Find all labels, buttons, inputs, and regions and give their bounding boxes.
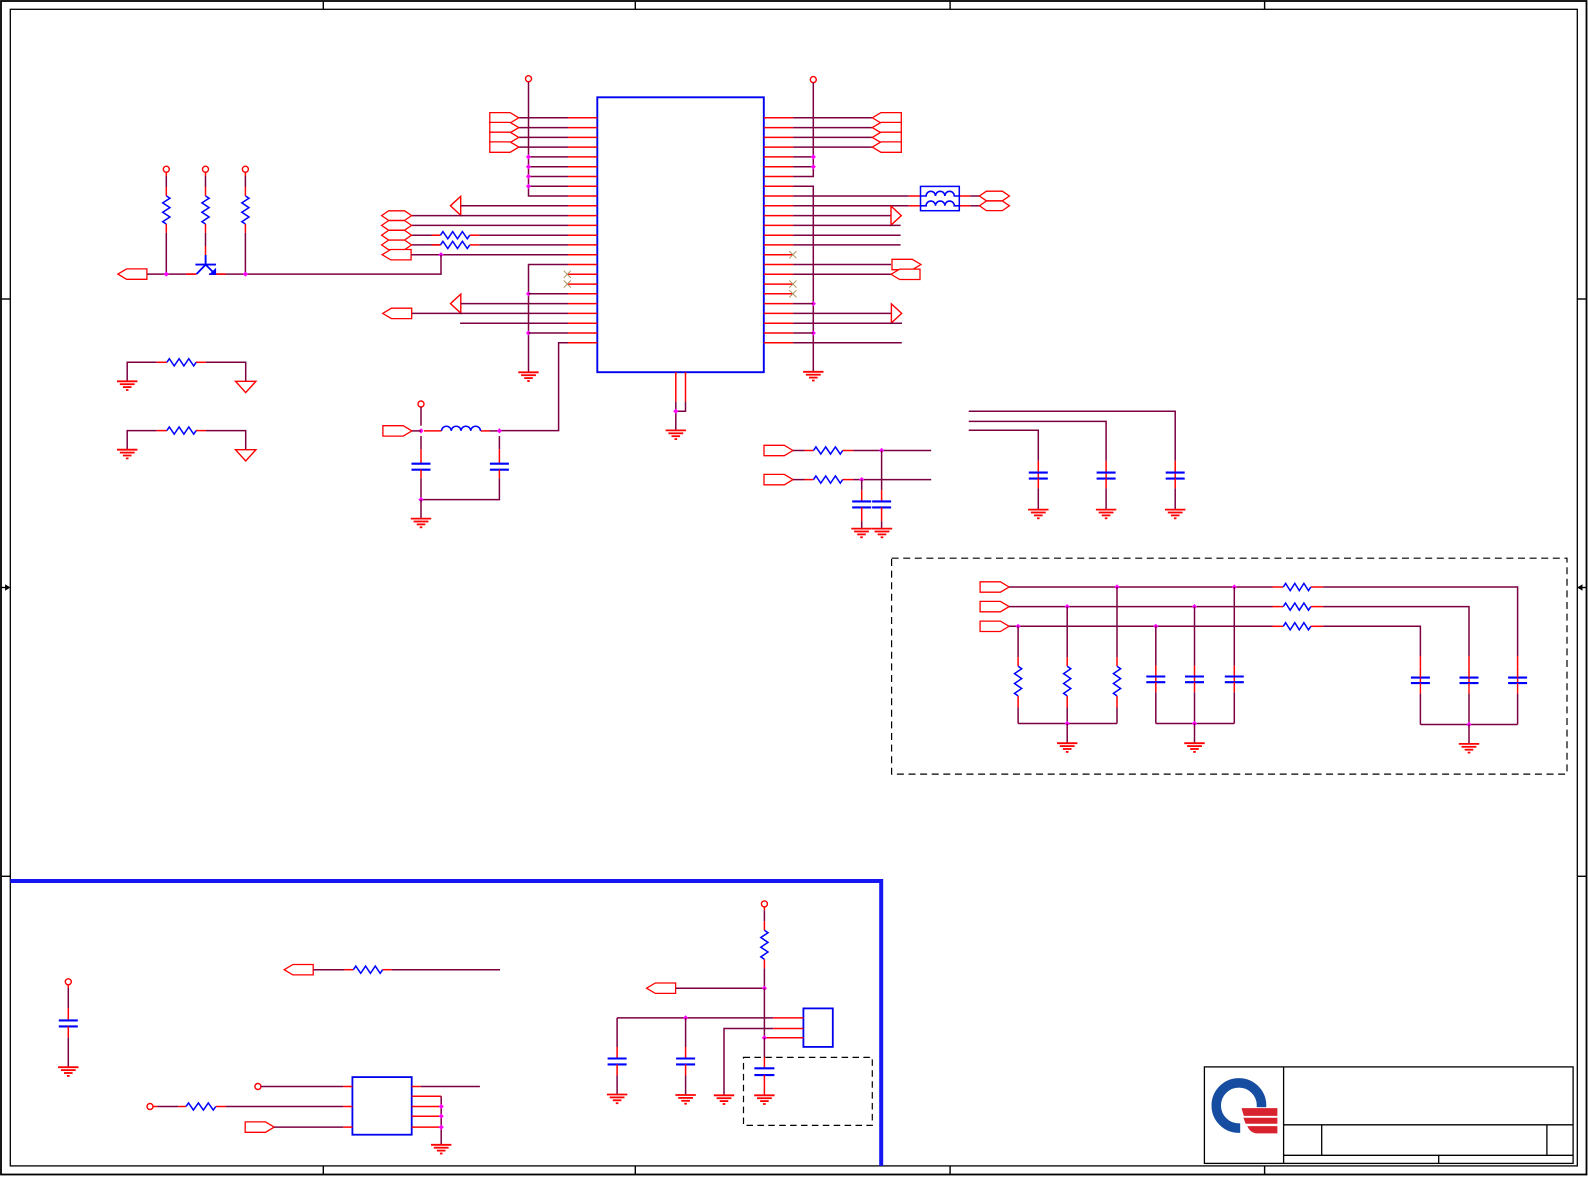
ground Q1 pin2: [714, 1095, 734, 1104]
wire left row 4: [529, 156, 569, 158]
section border power block: [10, 881, 881, 1166]
pin U1 left 1: [568, 117, 597, 119]
junction U1 gnd: [673, 409, 678, 414]
port flag left row14: [382, 250, 411, 260]
wire left row 11: [412, 224, 568, 226]
port flag USIM row B: [980, 601, 1009, 611]
pin U1 right 15: [764, 254, 793, 256]
resistor R7: [814, 476, 843, 483]
resistor Rs row A: [1283, 583, 1311, 590]
junction Cp row A: [1232, 584, 1237, 589]
dashed box USIM filter: [892, 558, 1567, 774]
junction ADC1: [879, 448, 884, 453]
wire U2 pin1: [261, 1086, 353, 1088]
ground C7: [1028, 510, 1048, 519]
pin U1 left 4: [568, 146, 597, 148]
pin U1 right 11: [764, 215, 793, 217]
wire LC node: [412, 430, 500, 432]
wire pullup column 3: [244, 172, 246, 176]
pin U1 right 8: [764, 185, 793, 187]
junction Cp row C: [1153, 624, 1158, 629]
wire LC gnd stub: [420, 500, 422, 519]
wire red anode segment: [186, 273, 196, 275]
wire left row 1: [519, 127, 568, 129]
resistor R8: [353, 966, 382, 973]
wire right row 0: [793, 117, 872, 119]
pin U1 left 22: [568, 322, 597, 324]
wire C5 feed: [969, 411, 1175, 461]
pin U1 left 8: [568, 185, 597, 187]
ground C4: [872, 529, 892, 538]
port flag ADC1: [764, 445, 793, 455]
port hexagon left row 12: [382, 230, 412, 240]
power node C8: [65, 979, 71, 985]
junction LC in: [418, 428, 423, 433]
port flag NETLIGHT: [647, 983, 676, 993]
port flag VBAT: [383, 426, 412, 436]
pin U1 right 18: [764, 283, 793, 285]
wire right row 1: [793, 127, 872, 129]
port flag left-top 1: [490, 113, 519, 123]
common-mode choke FB1: [921, 186, 960, 210]
capacitor Cs: [1419, 656, 1421, 667]
pin U1 right 20: [764, 303, 793, 305]
pin U1 left 14: [568, 244, 597, 246]
no-connect right row14: [789, 251, 796, 258]
wire VCC left vertical: [529, 82, 569, 196]
resistor R2: [202, 196, 209, 224]
port hexagon left row 11: [382, 221, 412, 231]
no-connect left row16: [564, 271, 571, 278]
diode D1: [195, 255, 216, 275]
wire left row 22: [529, 332, 569, 334]
no-connect right row18: [789, 290, 796, 297]
ground right IC: [803, 372, 823, 381]
pin U1 right 12: [764, 224, 793, 226]
capacitor C2: [498, 436, 500, 464]
ground C11: [754, 1095, 774, 1104]
pin U1 right 6: [764, 166, 793, 168]
wire U2 pin3: [274, 1126, 352, 1128]
ground LC: [411, 519, 431, 528]
transistor Q1: [803, 1008, 832, 1047]
port flag USIM row C: [980, 621, 1009, 631]
port flag USIM row A: [980, 582, 1009, 592]
wire left row 0: [519, 117, 568, 119]
wire Cp gnd: [1194, 724, 1196, 743]
ground left IC: [518, 372, 538, 381]
wire right row 23: [793, 342, 902, 344]
wire C7 feed: [969, 430, 1039, 461]
junction Cs bus: [1466, 722, 1471, 727]
junction right row 22: [811, 330, 816, 335]
power node U2 pin2: [147, 1104, 153, 1110]
pin U1 left 16: [568, 264, 597, 266]
wire Rp bus: [1018, 723, 1117, 725]
capacitor C7: [1037, 461, 1039, 473]
pin U1 right 2: [764, 127, 793, 129]
wire pullup column 2: [205, 172, 207, 176]
wire left row 23 to LC node: [499, 343, 568, 431]
resistor Rg: [167, 359, 196, 366]
wire PWRKEY: [313, 969, 500, 971]
port flag left-top 3: [490, 132, 519, 142]
port flag left-top 2: [490, 122, 519, 132]
junction U2 a: [439, 1104, 444, 1109]
pin U1 left 11: [568, 215, 597, 217]
resistor R3: [242, 196, 249, 224]
junction right row 4: [811, 154, 816, 159]
pin U1 bottom 1: [675, 372, 677, 402]
ground Rp: [1057, 743, 1077, 752]
pin U1 right 24: [764, 342, 793, 344]
wire left row 2: [519, 136, 568, 138]
junction netlight: [762, 986, 767, 991]
dashed box optional cap: [744, 1057, 873, 1125]
resistor R5: [441, 241, 470, 248]
wire right row 8 to choke: [793, 195, 979, 197]
wire U2 gnd vertical: [440, 1096, 442, 1144]
pin U1 right 4: [764, 146, 793, 148]
wire left row 14: [411, 254, 568, 256]
pin U1 left 24: [568, 342, 597, 344]
pin U1 left 23: [568, 332, 597, 334]
junction LC out: [497, 428, 502, 433]
wire base vertical: [763, 988, 765, 1038]
capacitor C5: [1174, 461, 1176, 473]
wire USIM row A: [1009, 587, 1518, 656]
ground C6: [1096, 510, 1116, 519]
resistor Rp pulldown: [1066, 607, 1068, 724]
pin U1 right 7: [764, 176, 793, 178]
wire left row 7: [529, 185, 569, 187]
wire NETLIGHT: [676, 987, 765, 989]
ground C5: [1165, 510, 1185, 519]
pin U1 right 9: [764, 195, 793, 197]
ground Cp: [1184, 743, 1204, 752]
wire right row 3: [793, 146, 872, 148]
IC U1: [597, 97, 764, 372]
wire left row 6: [529, 176, 569, 178]
port flag STATUS: [118, 269, 147, 279]
wire right row 13: [793, 244, 901, 246]
pin U1 right 16: [764, 264, 793, 266]
wire left row 5: [529, 166, 569, 168]
junction right row 19: [811, 301, 816, 306]
port flag left row20: [383, 308, 412, 318]
port hexagon left row 13: [382, 240, 412, 250]
wire red cathode segment: [216, 273, 226, 275]
wire U2 out4: [412, 1115, 442, 1117]
pin U1 right 19: [764, 293, 793, 295]
port flag right-top 3: [872, 132, 901, 142]
pin U1 right 10: [764, 205, 793, 207]
title block: [1204, 1067, 1573, 1164]
pin U1 left 21: [568, 312, 597, 314]
wire U1 ground pins: [676, 402, 686, 430]
pin U1 right 22: [764, 322, 793, 324]
wire USIM row C: [1009, 626, 1420, 656]
power node VCC left: [526, 76, 532, 82]
junction Rp row A: [1114, 584, 1119, 589]
junction left row 22: [526, 330, 531, 335]
wire Cs bus: [1420, 724, 1517, 726]
resistor R10: [763, 907, 765, 988]
port flag left-top 4: [490, 142, 519, 152]
wire right row 20: [793, 312, 891, 314]
junction left row 4: [526, 154, 531, 159]
power node VCC right: [810, 77, 816, 83]
pin U1 right 3: [764, 136, 793, 138]
junction Rp row B: [1065, 604, 1070, 609]
power node VSS: [236, 450, 256, 461]
junction U2 b: [439, 1114, 444, 1119]
wire Q1 pin2: [724, 1029, 803, 1096]
wire U2 out2: [412, 1095, 442, 1097]
resistor R6: [814, 447, 843, 454]
junction U2 c: [439, 1125, 444, 1130]
pin U1 right 14: [764, 244, 793, 246]
junction row14 bus: [438, 252, 443, 257]
junction pullup R1: [164, 272, 169, 277]
port flag U2 pin3: [245, 1122, 274, 1132]
wire right row 2: [793, 136, 872, 138]
port arrow right row10: [891, 206, 901, 225]
capacitor Cp: [1155, 626, 1157, 676]
wire right row 10: [793, 215, 891, 217]
junction ADC2: [859, 477, 864, 482]
wire right row 11: [793, 224, 901, 226]
resistor Rg: [167, 427, 196, 434]
junction Cp row B: [1192, 604, 1197, 609]
wire VCC right vertical: [793, 83, 813, 177]
IC U2: [352, 1077, 411, 1135]
capacitor C3: [861, 480, 863, 502]
pin U1 right 17: [764, 273, 793, 275]
junction LC gnd: [418, 497, 423, 502]
capacitor C1: [420, 436, 422, 464]
wire R to ground pair: [127, 362, 246, 381]
junction left row 7: [526, 184, 531, 189]
wire Q1 pin3: [764, 1037, 803, 1039]
wire right row 15: [793, 264, 891, 266]
resistor R9: [186, 1103, 216, 1110]
pin U1 right 13: [764, 234, 793, 236]
capacitor C11: [763, 1038, 765, 1069]
wire left row 21: [460, 322, 568, 324]
wire right row 22: [793, 332, 813, 334]
wire left row 18: [529, 293, 569, 295]
ground U1: [666, 430, 686, 439]
wire ADC2: [793, 479, 931, 481]
power node U2 pin1: [255, 1084, 261, 1090]
no-connect right row17: [789, 281, 796, 288]
wire status bus: [147, 273, 196, 275]
port arrow left row19: [451, 294, 461, 313]
ground C10: [675, 1095, 695, 1104]
ground C8: [58, 1067, 78, 1076]
port hexagon choke out 1: [979, 191, 1009, 201]
pin U1 left 15: [568, 254, 597, 256]
wire U2 out1: [412, 1086, 480, 1088]
power node pullup 3: [242, 166, 248, 172]
wire right row 19: [793, 303, 813, 305]
wire Rp gnd: [1066, 724, 1068, 743]
wire left row 19: [461, 303, 568, 305]
port flag ADC2: [764, 474, 793, 484]
pin U1 left 20: [568, 303, 597, 305]
pin U1 left 13: [568, 234, 597, 236]
ground: [117, 381, 137, 390]
wire left row 10: [412, 215, 568, 217]
ground U2: [431, 1145, 451, 1154]
power node VSS: [236, 381, 256, 392]
pin U1 left 6: [568, 166, 597, 168]
junction Rp row C: [1016, 624, 1021, 629]
wire Cp bus: [1156, 723, 1235, 725]
port flag right-top 1: [872, 113, 901, 123]
capacitor C4: [881, 451, 883, 502]
port flag right row16: [891, 269, 920, 279]
power node pullup 2: [203, 166, 209, 172]
wire U2 pin2: [153, 1106, 352, 1108]
wire Cs gnd: [1468, 725, 1470, 744]
port hexagon choke out 2: [979, 201, 1009, 211]
wire right row 16: [793, 273, 891, 275]
pin U1 left 9: [568, 195, 597, 197]
junction left row 6: [526, 174, 531, 179]
ground: [117, 450, 137, 459]
wire left row 12: [412, 234, 441, 236]
port flag right-top 2: [872, 122, 901, 132]
wire right row 4: [793, 156, 813, 158]
resistor Rp pulldown: [1116, 587, 1118, 724]
wire right row 12: [793, 234, 901, 236]
capacitor C10: [685, 1018, 687, 1059]
logo: [1216, 1083, 1282, 1141]
wire U2 out5: [412, 1126, 442, 1128]
capacitor C6: [1105, 461, 1107, 473]
resistor Rs row C: [1283, 623, 1311, 630]
pin U1 left 12: [568, 224, 597, 226]
resistor Rs row B: [1283, 603, 1311, 610]
ground Cs: [1459, 744, 1479, 753]
capacitor Cs: [1468, 656, 1470, 667]
junction Rp bus: [1065, 721, 1070, 726]
pin U1 left 18: [568, 283, 597, 285]
pin U1 left 10: [568, 205, 597, 207]
junction Cp bus: [1192, 721, 1197, 726]
capacitor C8: [67, 985, 69, 1021]
wire left row 20: [412, 312, 568, 314]
pin U1 right 5: [764, 156, 793, 158]
junction right row 5: [811, 164, 816, 169]
capacitor Cp: [1233, 587, 1235, 677]
capacitor Cs: [1517, 656, 1519, 667]
resistor R1: [163, 196, 170, 224]
pin U1 right 21: [764, 312, 793, 314]
wire LC vertical top: [420, 407, 422, 426]
wire R to ground pair: [127, 431, 246, 450]
pin U1 right 23: [764, 332, 793, 334]
junction pullup R3: [243, 272, 248, 277]
wire left vertical lower: [529, 265, 569, 373]
no-connect left row17: [564, 281, 571, 288]
pin U1 left 2: [568, 127, 597, 129]
resistor Rp pulldown: [1017, 626, 1019, 723]
pin U1 left 3: [568, 136, 597, 138]
wire right row 9 to choke: [793, 205, 979, 207]
ground C9: [607, 1095, 627, 1104]
wire C6 feed: [969, 421, 1106, 461]
resistor R4: [441, 232, 470, 239]
pin U1 left 19: [568, 293, 597, 295]
power node R10: [761, 901, 767, 907]
pin U1 left 5: [568, 156, 597, 158]
wire USIM row B: [1009, 607, 1469, 656]
junction left row 18: [526, 291, 531, 296]
power node LC: [418, 401, 424, 407]
pin U1 left 7: [568, 176, 597, 178]
junction Q1 pin1: [683, 1015, 688, 1020]
ground C3: [851, 529, 871, 538]
wire ADC1: [793, 450, 931, 452]
port arrow left row9: [450, 196, 460, 215]
wire right row 5: [793, 166, 813, 168]
junction Q1 pin3: [762, 1035, 767, 1040]
wire U2 out3: [412, 1106, 442, 1108]
wire left row 13: [412, 244, 441, 246]
port flag PWRKEY in: [284, 965, 313, 975]
wire pullup column 1: [165, 172, 167, 176]
pin U1 bottom 2: [685, 372, 687, 402]
port flag right-top 4: [872, 142, 901, 152]
wire left row 9: [461, 205, 568, 207]
pin U1 right 1: [764, 117, 793, 119]
capacitor C9: [616, 1047, 618, 1059]
pin U1 left 17: [568, 273, 597, 275]
capacitor Cp: [1194, 607, 1196, 677]
port hexagon left row 10: [382, 211, 412, 221]
wire Q1 pin1: [617, 1018, 803, 1047]
port arrow right row20: [891, 304, 901, 323]
port flag right row15: [892, 259, 921, 269]
wire right vertical lower: [793, 186, 813, 371]
inductor L1: [442, 426, 481, 431]
power node pullup 1: [163, 166, 169, 172]
wire left row 3: [519, 146, 568, 148]
junction left row 5: [526, 164, 531, 169]
wire right row 21: [793, 322, 902, 324]
